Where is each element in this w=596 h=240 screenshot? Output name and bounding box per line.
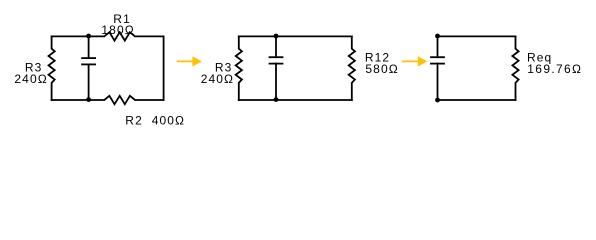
- svg-text:240Ω: 240Ω: [14, 72, 47, 86]
- svg-text:169.76Ω: 169.76Ω: [527, 62, 582, 76]
- svg-text:R2: R2: [125, 114, 143, 128]
- svg-text:180Ω: 180Ω: [101, 23, 134, 37]
- svg-text:580Ω: 580Ω: [365, 62, 398, 76]
- svg-text:400Ω: 400Ω: [152, 114, 185, 128]
- svg-text:240Ω: 240Ω: [201, 72, 234, 86]
